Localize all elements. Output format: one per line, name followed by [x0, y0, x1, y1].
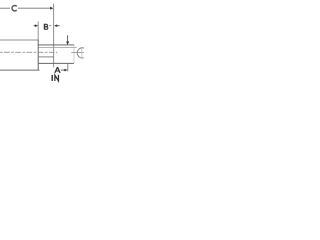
dimension C line left segment	[0, 7, 10, 9]
body large cylinder top edge	[0, 39, 38, 41]
dimension B label	[45, 24, 48, 30]
dimension B left arrow (outside, pointing right)	[34, 25, 37, 27]
flow marker arrow pointing down at top edge	[67, 35, 69, 42]
dimension A label	[55, 67, 60, 73]
dimension A line with right arrow	[61, 69, 65, 71]
reduced section inner bottom line	[39, 56, 54, 58]
reduced section outer bottom edge	[39, 62, 74, 64]
reduced section outer top edge	[38, 44, 74, 46]
body large cylinder bottom edge	[0, 69, 40, 71]
dimension B left extension line	[37, 21, 39, 40]
dimension B right arrow (outside, pointing left)	[54, 24, 57, 27]
dimension C arrowhead right	[50, 7, 53, 10]
reduced section inner top line	[39, 46, 77, 48]
dimension C label	[12, 5, 17, 10]
dimension A right extension line	[67, 64, 69, 72]
dimension C line right segment	[18, 7, 51, 9]
ball end circle	[77, 48, 87, 58]
IN label	[52, 75, 58, 81]
centerline through ball	[71, 52, 84, 54]
dimension B short line to right extension	[49, 25, 52, 27]
ball vertical centerline	[81, 48, 83, 58]
centerline dashed	[0, 51, 57, 53]
right end vertical edge (faint)	[73, 45, 75, 63]
body large cylinder right end edge	[37, 40, 39, 71]
extension line at x=53.65 (right end of C / B, left of A)	[53, 4, 55, 68]
